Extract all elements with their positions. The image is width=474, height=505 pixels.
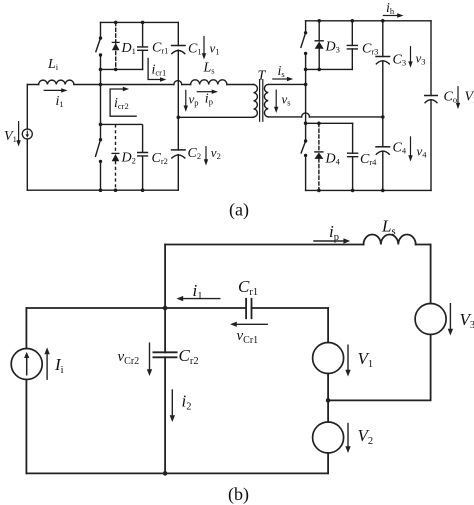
inductor Ls (b) [364,235,416,245]
svg-text:vp: vp [189,92,199,108]
source Ii circle [11,349,42,380]
junction dots (a) [99,19,385,192]
arrow i1 [44,89,63,91]
arrow icr1 bent [148,58,161,80]
wire bottom rail right (a) [306,189,431,191]
arrow i1 (b) [183,298,221,300]
wire cell1 bottom [101,68,143,70]
svg-text:vCr2: vCr2 [118,349,140,367]
svg-text:V1: V1 [4,129,17,144]
capacitor Cr2 plates [137,153,148,156]
svg-text:Ii: Ii [54,355,64,376]
wire output branch Co [430,21,432,191]
arrow v1 [203,36,205,55]
svg-text:v2: v2 [211,145,221,161]
wire left branch Ii [25,308,27,473]
arrow vCr1 [236,323,268,325]
svg-text:V2: V2 [358,426,374,447]
arrow ip (b) [313,240,344,242]
capacitor C3 [375,56,390,58]
svg-text:C4: C4 [393,141,407,156]
switch S4 [304,139,307,142]
arrow VH [457,86,459,104]
wire left vertical input loop [26,85,28,191]
svg-text:icr2: icr2 [114,96,129,111]
wire top (b) [165,244,431,246]
wire center branch Cr2 [164,245,166,474]
arrow is [272,78,288,80]
wire bus S1-S2 column [100,22,102,190]
source V1 circle [22,129,32,139]
svg-text:Ls: Ls [203,61,215,76]
svg-text:is: is [278,64,285,79]
svg-text:Co: Co [444,90,458,105]
source V3 circle [415,304,446,335]
wire C1-C2 branch [177,22,179,190]
arrow ip [197,91,213,93]
capacitor Cr1 branch [142,22,144,69]
svg-text:(a): (a) [229,200,249,221]
svg-text:Ls: Ls [381,217,396,238]
svg-text:icr1: icr1 [152,63,167,78]
svg-text:D4: D4 [325,152,341,167]
svg-text:v4: v4 [417,144,428,160]
svg-text:C3: C3 [393,53,407,68]
arrow vCr2 [149,343,151,370]
svg-text:ih: ih [386,1,395,16]
wire middle horizontal [26,307,328,309]
wire bus S3-S4 column [305,21,307,191]
wire primary bottom [178,116,253,118]
diode D4 [314,151,323,153]
wire secondary top [268,83,305,85]
inductor Ls (a) [191,80,227,85]
svg-text:i1: i1 [193,281,203,302]
svg-text:D3: D3 [325,40,340,55]
wire bottom rail (b) [26,472,328,474]
svg-text:Cr2: Cr2 [179,346,199,367]
svg-text:Li: Li [47,57,59,72]
capacitor Cr1 plates [137,47,148,50]
switch S3 [304,31,307,34]
svg-text:D1: D1 [121,41,136,56]
capacitor Cr4 plates [347,153,358,157]
svg-text:V1: V1 [358,349,374,370]
svg-text:v1: v1 [210,41,220,57]
switch S2 [99,138,102,141]
svg-text:T: T [258,69,267,84]
wire secondary bottom with hop [268,116,383,118]
transformer T core [260,80,263,122]
arrow V2 (b) [347,423,349,447]
diode D4 dashed branch [318,123,320,190]
svg-text:(b): (b) [228,484,249,505]
wire right branch V3 [328,245,431,401]
svg-text:vs: vs [282,92,291,108]
arrow vp [185,90,187,107]
capacitor Co [424,95,438,97]
wire main primary rail [27,84,253,86]
svg-text:D2: D2 [121,151,136,166]
diode D1 [112,41,120,43]
source V1 circle [313,343,344,374]
arrow V3 (b) [449,303,451,329]
wire C3-C4 branch [382,21,384,191]
diode D2 [112,152,120,154]
svg-text:C1: C1 [188,42,202,57]
wire cell1 top [101,21,179,23]
wire cell4 top [306,122,353,124]
svg-text:V3: V3 [460,310,474,331]
svg-text:vCr1: vCr1 [237,328,259,346]
svg-text:Cr3: Cr3 [362,42,378,57]
capacitor Cr2 plates (b) [153,352,178,357]
source V2 circle [313,422,344,453]
arrow v4 [410,136,412,156]
wire top rail right (a) [306,20,431,22]
arrow i2 [171,389,173,416]
arrow v3 [410,46,412,63]
transformer T secondary winding [264,84,268,117]
svg-text:Cr4: Cr4 [360,152,377,167]
arrow V1 (b) [347,345,349,371]
capacitor C1 [171,45,186,47]
svg-text:i1: i1 [56,94,64,109]
diode D3 branch [318,21,320,70]
capacitor Cr3 branch [351,21,353,70]
svg-text:v3: v3 [416,51,426,67]
arrow icr2 bent [110,89,137,116]
transformer T primary winding [254,85,258,118]
diode D3 [315,40,324,42]
arrow v2 [205,146,207,160]
capacitor C2 [171,149,186,151]
arrow vs [275,90,277,109]
wire hop over S3-S4 bus [302,113,310,117]
capacitor C4 [375,146,390,148]
junction dots (b) [163,306,331,476]
diode D1 dashed branch [115,22,117,69]
arrow ih [383,15,398,17]
diode D2 dashed branch [115,124,117,190]
capacitor Cr3 plates [347,45,358,49]
svg-text:Cr1: Cr1 [152,41,168,56]
inductor Li [39,80,74,84]
svg-text:ip: ip [329,222,339,243]
arrow V1 label [18,121,20,142]
svg-text:VH: VH [465,90,474,105]
capacitor Cr2 branch wire [142,124,144,190]
wire bottom rail left (a) [27,189,178,191]
capacitor Cr4 branch [352,123,354,190]
wire hop over C1-C2 branch [174,81,182,85]
svg-text:C2: C2 [188,146,202,161]
arrow Ii label [46,354,48,380]
wire cell2 top [101,123,143,125]
svg-text:Cr2: Cr2 [152,151,168,166]
svg-text:Cr1: Cr1 [238,277,258,298]
capacitor Cr1 plates (b) [246,298,251,319]
wire cell3 bottom [306,68,353,70]
svg-text:i2: i2 [182,392,192,413]
wire V1 V2 branch [327,308,329,473]
switch S1 [99,36,102,39]
